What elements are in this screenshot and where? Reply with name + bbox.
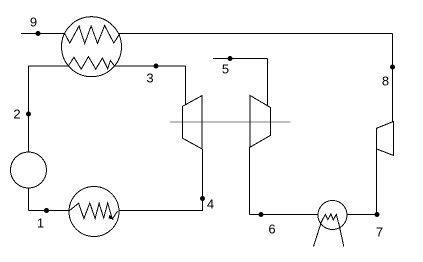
HX2 zigzag bbox=[69, 203, 118, 219]
svg-text:1: 1 bbox=[37, 216, 44, 231]
wire compressor outlet down to node 4 bbox=[202, 149, 204, 211]
svg-text:9: 9 bbox=[30, 15, 37, 30]
node 1 bbox=[44, 208, 49, 213]
wire HX1 bottom horizontal bbox=[29, 65, 186, 67]
combustor left leg bbox=[314, 222, 322, 247]
svg-text:6: 6 bbox=[268, 222, 275, 237]
wire left vertical 2 bbox=[28, 66, 30, 211]
combustor filament bbox=[321, 214, 339, 226]
wire down into turbine bbox=[267, 59, 269, 106]
HX2 arrowhead bbox=[109, 215, 114, 220]
node 9 bbox=[36, 31, 41, 36]
node 4 bbox=[200, 196, 205, 201]
svg-text:5: 5 bbox=[222, 62, 229, 77]
svg-text:3: 3 bbox=[146, 71, 153, 86]
shaft bbox=[170, 121, 291, 123]
svg-text:4: 4 bbox=[207, 197, 214, 212]
wire top line 9 bbox=[21, 33, 393, 35]
turbine T2 bbox=[250, 95, 270, 147]
node 3 bbox=[154, 64, 159, 69]
svg-text:8: 8 bbox=[382, 74, 389, 89]
node 6 bbox=[259, 212, 264, 217]
svg-text:7: 7 bbox=[376, 225, 383, 240]
node 8 bbox=[390, 65, 395, 70]
heat exchanger HX2 circle bbox=[69, 187, 119, 237]
node 7 bbox=[375, 212, 380, 217]
wire node 5 horizontal bbox=[213, 58, 268, 60]
pump circle bbox=[11, 152, 47, 188]
combustor right leg bbox=[339, 226, 344, 247]
heat exchanger HX1 circle bbox=[62, 17, 122, 77]
combustor circle bbox=[318, 201, 347, 230]
node 2 bbox=[26, 112, 31, 117]
HX1 top zigzag bbox=[65, 26, 120, 44]
turbine T3 bbox=[376, 122, 393, 156]
node 5 bbox=[228, 56, 233, 61]
wire down into compressor bbox=[185, 66, 187, 105]
wire bottom-right horizontal 6-7 bbox=[250, 214, 377, 216]
svg-text:2: 2 bbox=[13, 107, 20, 122]
wire bottom-left horizontal bbox=[29, 210, 203, 212]
wire node 7 up to turbine bbox=[376, 149, 378, 215]
wire right vertical to turbine bbox=[392, 34, 394, 123]
wire turbine outlet down bbox=[249, 147, 251, 215]
HX1 bottom zigzag bbox=[68, 57, 114, 70]
compressor T1 bbox=[183, 96, 203, 150]
